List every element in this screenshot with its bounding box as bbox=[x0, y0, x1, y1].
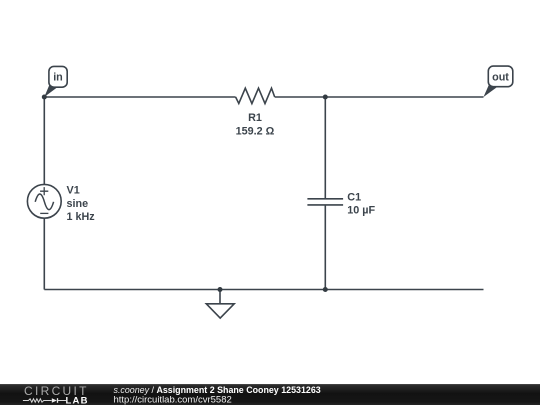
node out flag bbox=[484, 66, 513, 97]
voltage source V1 bbox=[27, 184, 95, 223]
resistor R1 bbox=[236, 88, 275, 138]
footer bar bbox=[0, 384, 540, 405]
node in flag bbox=[44, 66, 67, 97]
wire C1 top lead bbox=[324, 97, 326, 198]
capacitor C1 bbox=[307, 192, 375, 217]
CircuitLab logo resistor squiggle bbox=[23, 399, 52, 402]
wire C1 bottom lead bbox=[324, 205, 326, 289]
svg-text:http://circuitlab.com/cvr5582: http://circuitlab.com/cvr5582 bbox=[114, 394, 232, 405]
ground bbox=[206, 290, 234, 319]
wire bottom rail bbox=[44, 289, 483, 291]
svg-text:in: in bbox=[53, 72, 63, 84]
svg-text:V1: V1 bbox=[67, 184, 80, 196]
junction node at ground bbox=[218, 287, 223, 292]
svg-text:LAB: LAB bbox=[66, 395, 89, 405]
junction node at in bbox=[42, 95, 47, 100]
CircuitLab logo diode bbox=[52, 398, 57, 403]
svg-text:out: out bbox=[492, 71, 509, 83]
wire left vertical lower (V1 bottom to ground rail) bbox=[43, 218, 45, 289]
svg-text:159.2 Ω: 159.2 Ω bbox=[236, 126, 275, 138]
svg-text:C1: C1 bbox=[347, 192, 361, 204]
svg-text:R1: R1 bbox=[248, 112, 262, 124]
svg-text:sine: sine bbox=[67, 198, 89, 210]
wire top-right segment (R1 right lead to out node) bbox=[275, 96, 484, 98]
wire top-left segment (in node to R1 left lead) bbox=[44, 96, 235, 98]
junction node bottom of C1 bbox=[323, 287, 328, 292]
svg-text:10 µF: 10 µF bbox=[347, 205, 375, 217]
wire left vertical upper (in node to V1 top) bbox=[43, 97, 45, 184]
junction node top of C1 bbox=[323, 95, 328, 100]
svg-text:1 kHz: 1 kHz bbox=[67, 211, 96, 223]
